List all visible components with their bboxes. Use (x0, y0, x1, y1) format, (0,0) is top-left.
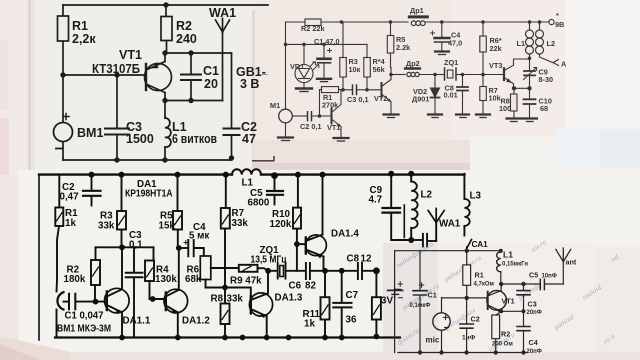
svg-text:Др1: Др1 (410, 6, 424, 15)
transistor VT1 (card4) (487, 284, 507, 313)
capacitor C4 (card4) (517, 327, 530, 353)
resistor R2 (161, 5, 172, 53)
resistor R7 (card2) (476, 75, 490, 118)
inductor L3 (card3) (464, 174, 469, 236)
svg-text:C3: C3 (528, 300, 537, 309)
svg-text:C3 0,1: C3 0,1 (347, 95, 369, 104)
resistor R12 (card3) (372, 271, 381, 337)
choke Dr2 (391, 69, 435, 77)
resistor R11 (card3) (321, 271, 330, 338)
svg-text:20: 20 (204, 77, 218, 91)
svg-text:20пФ: 20пФ (527, 310, 542, 316)
svg-text:R8: R8 (211, 294, 224, 305)
svg-text:DA1.4: DA1.4 (331, 229, 359, 240)
wire base (card4) (442, 297, 488, 299)
svg-text:33k: 33k (227, 294, 244, 305)
svg-text:R2: R2 (501, 330, 510, 339)
capacitor C3 (105, 75, 129, 160)
resistor R7 (card3) (221, 175, 230, 288)
wire emitter (card4) (496, 311, 524, 315)
resistor R2 (card4) (492, 315, 500, 353)
svg-text:9В: 9В (555, 20, 564, 29)
svg-text:56k: 56k (373, 65, 386, 74)
svg-text:3 В: 3 В (240, 77, 259, 91)
svg-text:L2: L2 (421, 190, 433, 201)
capacitor C3 (card2) (343, 85, 382, 95)
svg-text:1нФ: 1нФ (462, 335, 476, 342)
svg-text:130k: 130k (155, 274, 177, 285)
resistor R3 (card3) (117, 175, 126, 248)
resistor R8 (card2) (507, 88, 522, 121)
svg-text:C1: C1 (428, 291, 437, 300)
svg-text:36: 36 (346, 315, 357, 326)
svg-text:Др2: Др2 (406, 59, 420, 68)
capacitor C2 (card4) (460, 298, 474, 353)
svg-text:1k: 1k (304, 319, 315, 330)
svg-text:C1: C1 (203, 64, 219, 78)
capacitor C9 (card2) (524, 58, 537, 88)
svg-text:240: 240 (176, 32, 197, 46)
transistor VT3 (504, 59, 530, 88)
svg-text:C8: C8 (347, 254, 360, 265)
svg-text:47: 47 (242, 132, 256, 146)
resistor R1 (card4) (463, 251, 471, 298)
resistor R6 (card3) (200, 256, 239, 288)
antenna WA1 (216, 19, 230, 101)
node dots card3 (89, 171, 415, 341)
svg-text:12: 12 (361, 254, 372, 265)
capacitor C7 (card3) (333, 271, 351, 338)
capacitor C3 (card3) (126, 247, 143, 337)
svg-text:A: A (561, 60, 567, 69)
transistor VT2 (382, 68, 399, 118)
resistor R5 (card2) (387, 22, 394, 68)
svg-text:33k: 33k (98, 221, 115, 232)
svg-text:КР198НТ1А: КР198НТ1А (125, 189, 173, 200)
svg-text:¯: ¯ (261, 73, 268, 85)
wire left rail (285, 22, 287, 109)
inductor L1 (card4) (497, 251, 501, 284)
svg-text:ant: ant (566, 258, 577, 267)
svg-text:*: * (556, 11, 559, 20)
antenna ant (card4) (556, 248, 571, 284)
capacitor C9 (card3) (383, 174, 412, 240)
svg-text:1500: 1500 (126, 132, 154, 146)
capacitor C2 (card2) (293, 112, 332, 121)
wire zq bus (268, 270, 376, 272)
svg-text:mic: mic (426, 336, 440, 345)
antenna WA1 (card3) (428, 209, 444, 242)
svg-text:10пФ: 10пФ (542, 274, 557, 280)
capacitor C6 (card3) (306, 263, 310, 279)
inductor L1 (card2) (526, 22, 534, 58)
terminal 9V (549, 19, 554, 24)
svg-text:L1: L1 (242, 178, 254, 189)
frame left border (38, 175, 40, 340)
resistor R6* (480, 22, 487, 75)
microphone BM1 (card3) (57, 292, 64, 337)
microphone mic (433, 298, 450, 353)
wire top rail (63, 4, 268, 6)
capacitor C5 (card3) (267, 176, 283, 205)
capacitor C1 (card3) (64, 294, 107, 309)
node dots (60, 2, 234, 162)
transistor VT1 (145, 53, 172, 101)
svg-text:C1 47,0: C1 47,0 (314, 37, 340, 46)
LED VD1 (295, 44, 319, 91)
svg-text:VT3: VT3 (489, 61, 502, 70)
microphone M1 (278, 109, 293, 140)
svg-text:ВМ1 МКЭ-3М: ВМ1 МКЭ-3М (57, 324, 111, 335)
svg-text:22k: 22k (490, 44, 503, 53)
svg-text:10к: 10к (349, 65, 361, 74)
wire collector1 bus (96, 246, 154, 248)
svg-text:DA1.3: DA1.3 (275, 293, 303, 304)
choke Dr1 (409, 17, 427, 26)
capacitor C4 (card3) (179, 240, 204, 256)
svg-text:СА1: СА1 (472, 240, 489, 249)
svg-text:C2 0,1: C2 0,1 (300, 122, 322, 131)
wire emitter return (165, 100, 223, 102)
crystal ZQ1 (card2) (435, 68, 463, 80)
svg-text:68: 68 (540, 104, 548, 113)
svg-text:6800: 6800 (248, 198, 270, 209)
wire collector rail (165, 52, 232, 54)
resistor R4 (card2) (364, 44, 371, 89)
inductor L2 (card2) (536, 22, 559, 66)
svg-text:DA1.2: DA1.2 (182, 316, 210, 327)
svg-text:13,5 МГц: 13,5 МГц (251, 255, 287, 266)
node dots card4 (418, 249, 526, 355)
svg-text:200 Ом: 200 Ом (492, 342, 513, 348)
svg-text:C6: C6 (289, 281, 302, 292)
svg-text:C4: C4 (529, 338, 538, 347)
svg-text:L1: L1 (503, 250, 513, 260)
svg-text:68k: 68k (185, 274, 202, 285)
svg-text:0.01: 0.01 (444, 91, 458, 100)
wire bottom rail (card3) (55, 336, 400, 338)
svg-text:L3: L3 (470, 191, 482, 202)
svg-text:VT1: VT1 (327, 123, 340, 132)
resistor R2 (card3) (91, 247, 100, 301)
svg-text:R1: R1 (72, 19, 88, 33)
capacitor C4 (card2) (431, 22, 450, 55)
svg-text:3V: 3V (381, 296, 393, 307)
svg-text:ZQ1: ZQ1 (444, 58, 458, 67)
diode VD2 (428, 75, 442, 118)
svg-text:ВМ1: ВМ1 (77, 126, 103, 140)
svg-text:20пФ: 20пФ (527, 349, 542, 355)
svg-text:VT1: VT1 (119, 48, 142, 62)
capacitor C8 (card3) (358, 263, 362, 279)
svg-text:33k: 33k (232, 218, 249, 229)
wire bottom rail (card4) (398, 352, 527, 354)
svg-text:0,1мкФ: 0,1мкФ (410, 303, 431, 309)
svg-text:C7: C7 (346, 290, 359, 301)
capacitor C1 (card2) (317, 44, 332, 81)
card2 frame corner (252, 156, 274, 161)
transistor VT1 (card2) (332, 90, 349, 141)
svg-text:C2: C2 (471, 315, 480, 324)
crystal ZQ1 (card3) (278, 264, 286, 279)
transistor DA1.4 (297, 175, 327, 271)
resistor R1 (card3) (55, 175, 63, 292)
wire top rail 9V (286, 21, 549, 23)
transistor DA1.1 (105, 247, 130, 337)
svg-text:DA1.1: DA1.1 (123, 316, 151, 327)
svg-text:2.2k: 2.2k (396, 43, 411, 52)
svg-text:15k: 15k (159, 221, 176, 232)
switch SA1 (466, 240, 472, 251)
svg-text:C5: C5 (529, 271, 538, 280)
capacitor Cant (card3) (411, 234, 436, 247)
resistor R1 (58, 16, 69, 41)
wire top rail (card4) (395, 250, 501, 252)
capacitor C1 (card4) (413, 251, 427, 353)
wire collector out (card4) (501, 283, 540, 285)
svg-text:R1: R1 (475, 271, 484, 280)
svg-text:2,2к: 2,2к (72, 32, 96, 46)
svg-text:R9 47k: R9 47k (230, 276, 262, 287)
wire top rail (card3) (39, 173, 464, 175)
svg-text:R2 22k: R2 22k (301, 24, 325, 33)
svg-text:Д901: Д901 (412, 95, 429, 104)
resistor R3 (card2) (340, 22, 347, 90)
wire base (63, 74, 144, 76)
microphone BM1 (54, 114, 73, 149)
svg-text:L2: L2 (547, 39, 556, 48)
capacitor C3 (card4) (517, 284, 530, 326)
battery 3V terminal (395, 289, 401, 299)
svg-text:0,47: 0,47 (60, 192, 80, 203)
wire bottom rail (63, 159, 232, 161)
capacitor C8 (card2) (456, 75, 469, 118)
capacitor C10 (523, 89, 538, 122)
svg-text:VD1: VD1 (290, 62, 304, 71)
resistor R1 (card2) (320, 87, 344, 116)
svg-text:270k: 270k (322, 101, 339, 110)
resistor R2 (card2) (305, 19, 321, 26)
resistor R8 (card3) (221, 288, 230, 338)
svg-text:5 мк: 5 мк (189, 231, 209, 242)
transistor DA1.2 (150, 248, 188, 338)
svg-text:L1: L1 (517, 39, 526, 48)
svg-text:C1 0,047: C1 0,047 (65, 311, 105, 322)
svg-text:120k: 120k (270, 219, 292, 230)
svg-text:VT2: VT2 (374, 94, 387, 103)
svg-text:100: 100 (499, 104, 511, 113)
resistor R4 (card3) (145, 247, 154, 299)
svg-text:M1: M1 (270, 101, 280, 110)
svg-text:8-30: 8-30 (539, 75, 554, 84)
capacitor C2 (224, 53, 240, 160)
inductor L1 (165, 101, 171, 161)
svg-text:WA1: WA1 (439, 219, 461, 230)
capacitor C1 (181, 53, 201, 101)
svg-text:6 витков: 6 витков (172, 132, 217, 146)
svg-text:1k: 1k (65, 218, 76, 229)
resistor R9 (card3) (239, 265, 268, 272)
svg-text:180k: 180k (64, 274, 86, 285)
svg-text:КТ3107Б: КТ3107Б (92, 62, 140, 76)
resistor R5 (card3) (173, 175, 182, 248)
node dots card2 (284, 20, 542, 118)
svg-text:82: 82 (305, 281, 316, 292)
svg-text:WA1: WA1 (209, 6, 236, 20)
battery GB (card4) (388, 251, 403, 353)
svg-text:VT1: VT1 (502, 297, 515, 306)
capacitor C2 (card3) (83, 175, 101, 206)
capacitor C5 (card4) (540, 279, 563, 289)
inductor L2 (card3) (404, 174, 417, 240)
svg-text:R2: R2 (176, 19, 192, 33)
transistor DA1.3 (249, 271, 272, 338)
svg-text:47,0: 47,0 (448, 39, 462, 48)
wire base3 bus (206, 288, 251, 297)
wire VT3 base (463, 74, 505, 76)
wire bias rail (286, 43, 368, 45)
resistor R10 (card3) (293, 175, 301, 271)
svg-text:4,7кОм: 4,7кОм (474, 282, 495, 288)
svg-text:4.7: 4.7 (369, 195, 383, 206)
wire left rail (62, 5, 64, 160)
inductor L1 (card3) (232, 169, 261, 174)
svg-text:0,1: 0,1 (129, 240, 143, 251)
svg-text:0,15мкГн: 0,15мкГн (502, 262, 528, 268)
wire VT3 emitter (514, 87, 530, 89)
